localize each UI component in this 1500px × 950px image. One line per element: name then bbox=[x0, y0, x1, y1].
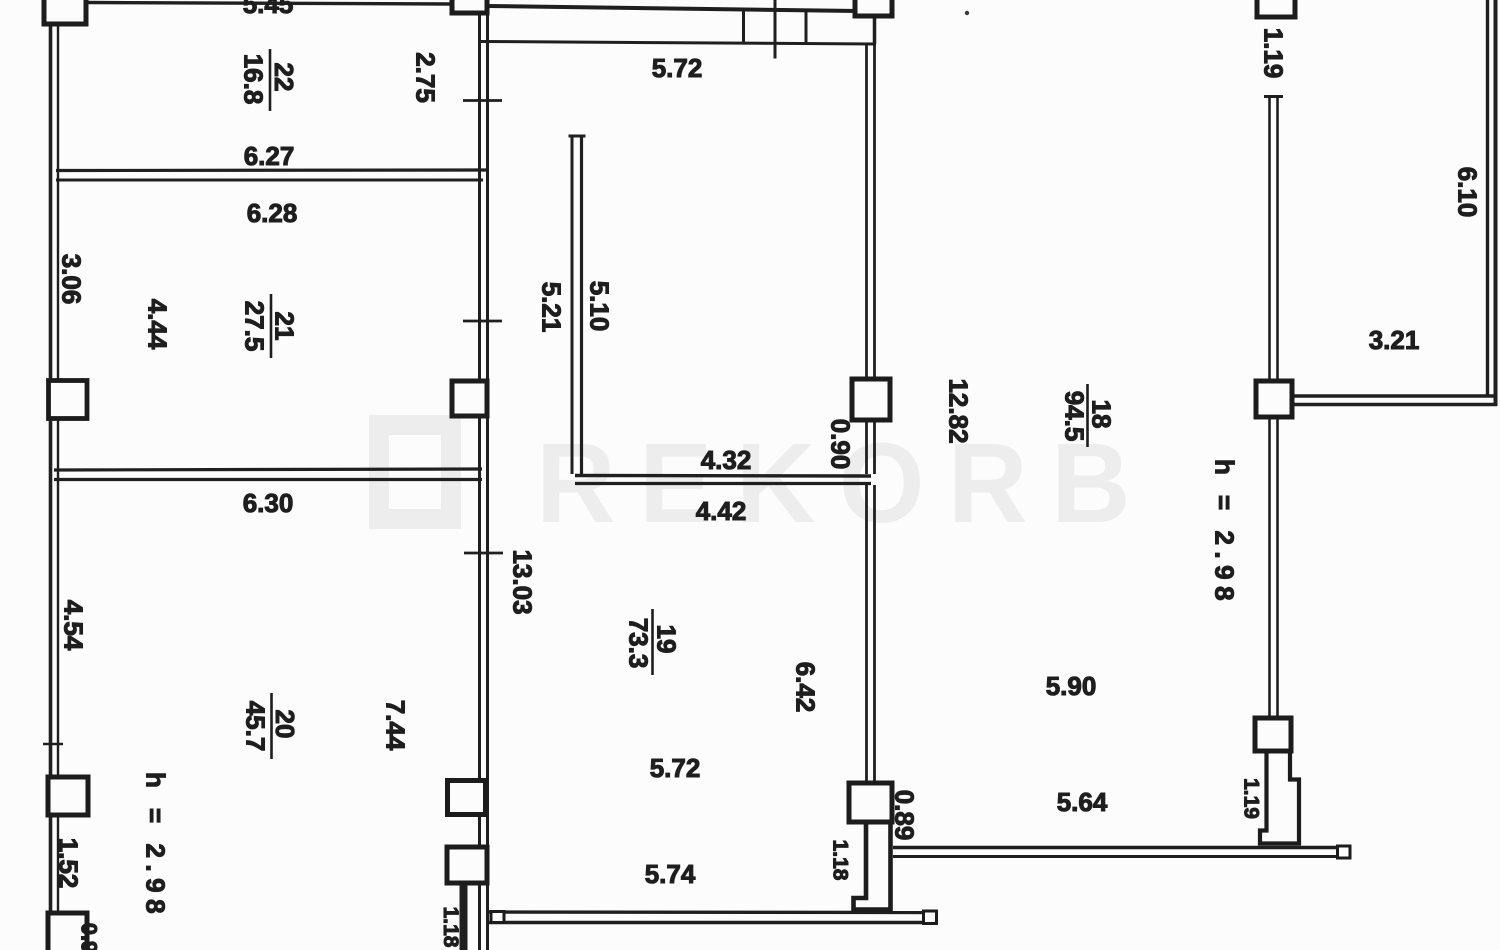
svg-text:5.45: 5.45 bbox=[243, 0, 294, 19]
svg-text:1.19: 1.19 bbox=[1259, 28, 1289, 79]
svg-text:6.42: 6.42 bbox=[791, 662, 821, 713]
room 22 fraction bar bbox=[269, 49, 272, 111]
wire wall 5.21 left line bbox=[571, 136, 574, 474]
room 21 fraction bar bbox=[270, 294, 273, 358]
wire top wall right section inner line bbox=[481, 42, 876, 45]
wire central wall tick 2.75 bbox=[463, 99, 502, 102]
svg-text:1.18: 1.18 bbox=[829, 840, 852, 881]
room 18 fraction bar bbox=[1086, 384, 1089, 447]
svg-text:6.30: 6.30 bbox=[243, 488, 294, 518]
column central wall lower A bbox=[448, 781, 486, 815]
wire right outer wall inner line bbox=[1486, 0, 1489, 396]
svg-text:5.72: 5.72 bbox=[652, 53, 703, 83]
svg-text:0.89: 0.89 bbox=[890, 790, 920, 841]
wire central wall tick 13.03 bbox=[464, 552, 503, 555]
wire bottom wall room19 top line bbox=[489, 910, 936, 914]
pylon below square rooms19/18 bbox=[854, 822, 891, 910]
svg-text:22: 22 bbox=[269, 63, 299, 92]
column right-mid wall lower bbox=[1255, 718, 1291, 751]
wire central wall tick mid bbox=[463, 320, 502, 323]
wire wall rooms19/18 right line mid bbox=[873, 420, 876, 474]
wire top wall over room 22 bbox=[86, 3, 452, 5]
wire right-mid wall right line upper bbox=[1276, 97, 1279, 382]
svg-text:94.5: 94.5 bbox=[1060, 391, 1090, 442]
column left wall lower bbox=[48, 777, 88, 815]
svg-text:19: 19 bbox=[652, 625, 682, 654]
wire central wall left line bbox=[478, 13, 481, 950]
wire wall rooms19/18 right line lower bbox=[873, 485, 876, 783]
wire wall rooms19/18 left line upper bbox=[865, 44, 868, 379]
wire bottom wall room19 bottom line bbox=[489, 921, 936, 924]
scan dot bbox=[965, 11, 969, 15]
svg-text:4.42: 4.42 bbox=[696, 496, 747, 526]
svg-text:6.27: 6.27 bbox=[244, 141, 295, 171]
column top wall right end bbox=[855, 0, 892, 16]
wire wall 3.21 bottom line bbox=[1292, 403, 1497, 406]
wire left outer wall inner line bbox=[57, 22, 59, 950]
watermark logo square bbox=[379, 425, 451, 519]
svg-text:5.21: 5.21 bbox=[537, 282, 567, 333]
svg-text:7.44: 7.44 bbox=[381, 700, 411, 751]
svg-text:0.90: 0.90 bbox=[826, 419, 856, 470]
svg-text:12.82: 12.82 bbox=[944, 378, 974, 443]
wire wall 5.21 right line bbox=[580, 136, 583, 474]
svg-text:1.52: 1.52 bbox=[54, 838, 84, 889]
wire central wall right line bbox=[486, 13, 489, 950]
wire wall 5.64 bottom line bbox=[893, 855, 1349, 858]
svg-text:4.32: 4.32 bbox=[701, 445, 752, 475]
svg-text:h = 2.98: h = 2.98 bbox=[141, 772, 171, 920]
column far right top bbox=[1257, 0, 1295, 17]
svg-text:13.03: 13.03 bbox=[508, 549, 538, 614]
svg-text:16.8: 16.8 bbox=[239, 54, 269, 105]
column top-left bbox=[44, 0, 86, 24]
wire wall room22/21 top line bbox=[56, 168, 487, 172]
svg-text:6.28: 6.28 bbox=[247, 198, 298, 228]
wire top wall right section outer line bbox=[487, 6, 858, 11]
svg-text:73.3: 73.3 bbox=[624, 618, 654, 669]
room 19 fraction bar bbox=[651, 609, 654, 675]
wire wall 5.64 top line bbox=[893, 846, 1349, 849]
column right-mid wall upper bbox=[1256, 381, 1292, 417]
svg-text:4.54: 4.54 bbox=[59, 600, 89, 651]
wire wall room21/20 bottom line bbox=[54, 478, 482, 481]
column rooms19/18 wall mid bbox=[852, 379, 890, 420]
wire left wall dim tick bbox=[43, 743, 63, 746]
svg-text:1.18: 1.18 bbox=[439, 907, 462, 948]
wire top wall right connector bbox=[873, 16, 877, 44]
wire wall rooms19/18 left line lower bbox=[865, 485, 868, 783]
room 20 fraction bar bbox=[270, 693, 273, 759]
wire right-mid wall left line upper bbox=[1268, 97, 1271, 382]
wire right outer wall outer line bbox=[1494, 0, 1498, 406]
svg-text:1.19: 1.19 bbox=[1240, 778, 1263, 819]
svg-text:3.21: 3.21 bbox=[1369, 325, 1420, 355]
svg-text:45.7: 45.7 bbox=[241, 701, 271, 752]
wire right-mid wall left line lower bbox=[1268, 417, 1271, 718]
end box bottom wall room19 left bbox=[491, 912, 504, 923]
wire central wall thick lower-left line bbox=[460, 880, 468, 950]
svg-text:6.10: 6.10 bbox=[1453, 167, 1483, 218]
wire wall 4.32 bottom line bbox=[575, 482, 871, 485]
svg-text:5.10: 5.10 bbox=[585, 281, 615, 332]
wire window mullion 2 bbox=[805, 11, 808, 44]
svg-text:2.75: 2.75 bbox=[411, 52, 441, 103]
svg-text:h = 2.98: h = 2.98 bbox=[1210, 459, 1240, 607]
wire window tick at 775 bbox=[774, 0, 777, 59]
svg-text:4.44: 4.44 bbox=[143, 299, 173, 350]
column left wall bottom bbox=[48, 913, 87, 950]
wire left outer wall outer line bbox=[49, 22, 53, 950]
column rooms19/18 wall lower bbox=[849, 783, 892, 822]
svg-text:5.64: 5.64 bbox=[1057, 787, 1108, 817]
wire wall room22/21 bottom line bbox=[56, 179, 483, 182]
svg-text:5.74: 5.74 bbox=[645, 859, 696, 889]
svg-text:21: 21 bbox=[270, 312, 300, 341]
end box bottom wall room19 right bbox=[924, 911, 937, 924]
wire right-mid wall right line lower bbox=[1276, 417, 1279, 718]
svg-text:27.5: 27.5 bbox=[240, 301, 270, 352]
wire wall rooms19/18 left line mid bbox=[865, 420, 868, 474]
column central wall lower B bbox=[447, 847, 487, 883]
wire window mullion 1 bbox=[742, 11, 745, 43]
column central wall mid bbox=[452, 381, 487, 416]
svg-text:5.90: 5.90 bbox=[1046, 671, 1097, 701]
svg-text:0.9: 0.9 bbox=[77, 923, 102, 950]
svg-text:18: 18 bbox=[1087, 400, 1117, 429]
pylon below right-mid wall square bbox=[1260, 751, 1299, 844]
end box wall 5.64 right bbox=[1338, 846, 1351, 858]
wire wall 3.21 top line bbox=[1292, 394, 1497, 397]
svg-text:5.72: 5.72 bbox=[650, 753, 701, 783]
column left wall mid bbox=[49, 381, 88, 419]
wire wall room21/20 top line bbox=[54, 469, 482, 470]
column central wall top bbox=[452, 0, 487, 13]
wire right-mid wall top cap bbox=[1264, 95, 1283, 98]
svg-text:20: 20 bbox=[270, 710, 300, 739]
svg-text:3.06: 3.06 bbox=[57, 254, 87, 305]
wire wall 5.21 top cap bbox=[569, 135, 586, 138]
wire wall 4.32 top line bbox=[575, 474, 871, 478]
wire wall rooms19/18 right line upper bbox=[873, 44, 876, 379]
